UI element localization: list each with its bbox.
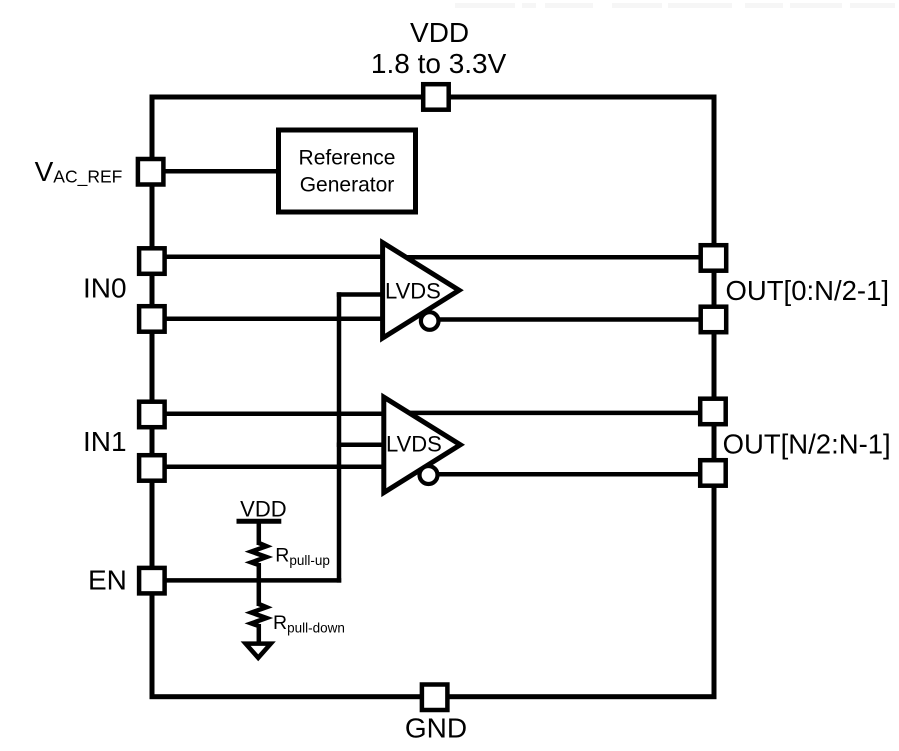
wire buffer U2 out- (from bubble) to OUT pin — [432, 472, 706, 477]
wire buffer U2 out+ to OUT pin — [404, 411, 706, 416]
op-amp U2 LVDS buffer — [384, 397, 461, 493]
pin VAC_REF — [138, 159, 164, 185]
svg-text:LVDS: LVDS — [385, 278, 441, 303]
svg-text:Reference: Reference — [299, 147, 396, 170]
resistor Rpull-down — [251, 604, 266, 626]
wire VDD bar to Rpull-up — [257, 520, 262, 545]
svg-text:Generator: Generator — [300, 173, 395, 196]
svg-text:IN0: IN0 — [83, 273, 127, 304]
wire buffer U1 out- (from bubble) to OUT pin — [432, 317, 706, 322]
svg-text:IN1: IN1 — [83, 426, 127, 457]
wire Rpull-up to EN node and Rpull-down — [257, 563, 262, 606]
inversion bubble U2 — [420, 466, 438, 484]
svg-text:GND: GND — [405, 713, 467, 744]
svg-text:OUT[N/2:N-1]: OUT[N/2:N-1] — [723, 428, 891, 459]
pin OUT1- — [700, 460, 726, 486]
wire EN pin to enable net corner — [160, 578, 341, 583]
svg-text:1.8 to 3.3V: 1.8 to 3.3V — [371, 48, 507, 79]
pin IN0- — [139, 306, 165, 332]
wire enable net vertical — [337, 292, 342, 582]
pin VDD (top) — [423, 84, 449, 110]
svg-text:VDD: VDD — [410, 17, 469, 48]
pin OUT0- — [701, 307, 727, 333]
faint header artifact — [455, 3, 895, 8]
pin OUT1+ — [700, 399, 726, 425]
wire VAC_REF pin to reference generator — [160, 169, 280, 174]
resistor Rpull-up — [251, 543, 266, 565]
pin EN — [139, 568, 165, 594]
op-amp U1 LVDS buffer — [383, 243, 460, 339]
svg-text:LVDS: LVDS — [386, 432, 442, 457]
wire Rpull-down to ground — [257, 624, 262, 644]
wire IN0+ to buffer U1 — [160, 255, 384, 260]
pin GND (bottom) — [422, 685, 448, 711]
pin IN0+ — [139, 248, 165, 273]
ground — [246, 644, 271, 658]
power rail VDD symbol bar — [237, 519, 282, 524]
pin IN1+ — [139, 402, 165, 428]
svg-text:EN: EN — [88, 564, 127, 595]
svg-text:VDD: VDD — [240, 497, 286, 522]
svg-text:OUT[0:N/2-1]: OUT[0:N/2-1] — [726, 275, 890, 306]
wire enable stub to buffer U1 — [337, 292, 384, 297]
wire IN0- to buffer U1 — [160, 316, 384, 321]
wire buffer U1 out+ to OUT pin — [402, 255, 706, 260]
inversion bubble U1 — [421, 312, 439, 330]
reference generator block — [279, 130, 416, 212]
wire IN1- to buffer U2 — [160, 465, 385, 470]
pin OUT0+ — [701, 245, 727, 271]
wire IN1+ to buffer U2 — [160, 412, 385, 417]
pin IN1- — [139, 455, 165, 481]
chip outline — [152, 97, 714, 697]
wire enable stub to buffer U2 — [337, 443, 385, 448]
